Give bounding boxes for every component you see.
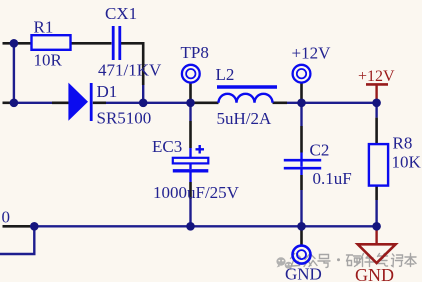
svg-text:TP8: TP8 bbox=[181, 43, 209, 62]
svg-text:471/1KV: 471/1KV bbox=[98, 61, 162, 80]
svg-text:10K: 10K bbox=[392, 153, 422, 172]
svg-text:0: 0 bbox=[2, 208, 11, 227]
svg-text:10R: 10R bbox=[34, 50, 63, 69]
svg-text:C2: C2 bbox=[310, 140, 330, 159]
svg-text:SR5100: SR5100 bbox=[97, 108, 152, 127]
svg-text:R8: R8 bbox=[393, 133, 413, 152]
svg-text:L2: L2 bbox=[216, 65, 235, 84]
svg-text:R1: R1 bbox=[34, 17, 54, 36]
svg-text:0.1uF: 0.1uF bbox=[313, 169, 352, 188]
svg-text:GND: GND bbox=[285, 265, 322, 282]
svg-text:EC3: EC3 bbox=[152, 137, 182, 156]
svg-text:+12V: +12V bbox=[358, 68, 395, 85]
svg-text:1000uF/25V: 1000uF/25V bbox=[153, 183, 240, 202]
svg-text:D1: D1 bbox=[97, 82, 118, 101]
svg-text:CX1: CX1 bbox=[105, 4, 137, 23]
svg-text:GND: GND bbox=[355, 265, 394, 282]
svg-text:5uH/2A: 5uH/2A bbox=[217, 109, 273, 128]
svg-text:+12V: +12V bbox=[292, 44, 332, 63]
